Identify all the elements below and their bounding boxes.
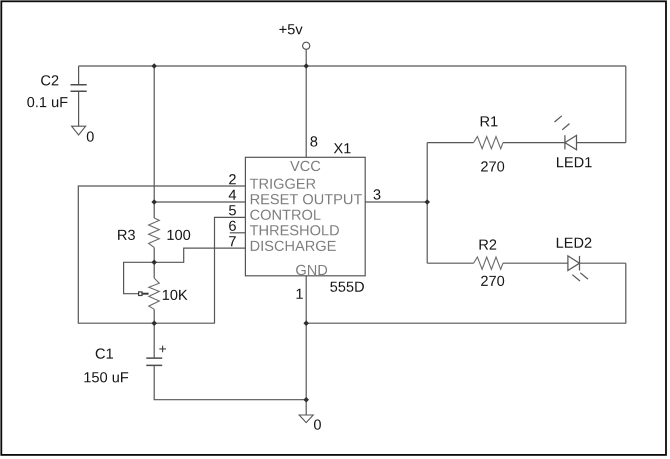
pin name CONTROL bbox=[250, 210, 320, 220]
pin number 5 bbox=[229, 205, 236, 215]
pin name GND bbox=[296, 265, 327, 275]
label 270 of R2 bbox=[481, 276, 504, 286]
label 0 at C2 ground bbox=[87, 131, 94, 141]
pin number 3 bbox=[374, 189, 381, 199]
label 555D bbox=[330, 282, 364, 292]
pin number 6 bbox=[229, 221, 236, 231]
pin number 1 bbox=[297, 289, 303, 299]
wire pin 6 stub bbox=[230, 232, 246, 234]
wire discharge link to pin 7 bbox=[154, 248, 245, 262]
capacitor C1 bbox=[146, 358, 162, 365]
wire +5v lead bbox=[305, 50, 307, 66]
node R3 / pot junction bbox=[151, 260, 157, 266]
wire control loop pin 5 bbox=[215, 217, 246, 323]
node top rail / x154 bbox=[151, 63, 157, 69]
wire C1 bottom lead to ground bbox=[154, 366, 306, 400]
op-amp style IC box U1/X1 555 bbox=[245, 157, 365, 275]
label +5v bbox=[279, 24, 302, 34]
wire C2 bottom lead bbox=[78, 92, 80, 126]
wire C2 top lead bbox=[78, 66, 80, 84]
label R2 bbox=[480, 239, 497, 249]
wire pot top lead bbox=[153, 262, 155, 278]
potentiometer 10K bbox=[149, 278, 160, 309]
wire top +5v rail bbox=[79, 65, 626, 67]
label R3 bbox=[118, 230, 135, 240]
label C2 bbox=[41, 75, 58, 85]
pin name TRIGGER bbox=[250, 179, 316, 189]
wire pin 8 bbox=[305, 66, 307, 157]
wire pin 1 bbox=[305, 276, 307, 400]
wire wiper loop bbox=[124, 262, 155, 293]
label 270 of R1 bbox=[481, 161, 504, 171]
label 0.1 uF bbox=[27, 97, 67, 107]
ground main bbox=[299, 415, 313, 423]
wire vertical x154 rail to pin4 bbox=[153, 66, 155, 202]
resistor R3 bbox=[149, 218, 160, 248]
pin number 7 bbox=[229, 236, 236, 246]
label 10K bbox=[163, 290, 188, 300]
wire pin 4 RESET bbox=[154, 201, 245, 203]
label R1 bbox=[481, 116, 498, 126]
ground at C2 bbox=[72, 126, 86, 135]
C1 plus sign bbox=[159, 346, 166, 353]
LED1 bbox=[555, 116, 577, 150]
resistor R1 bbox=[474, 137, 503, 149]
wire R2 row bbox=[427, 262, 626, 264]
wire trigger loop pin 2 bbox=[78, 186, 245, 323]
node pot bottom rail bbox=[151, 320, 157, 326]
+5v supply circle bbox=[303, 42, 310, 49]
wire R1 row bbox=[427, 142, 626, 144]
label LED1 bbox=[557, 157, 592, 167]
label C1 bbox=[96, 348, 113, 358]
pin name VCC bbox=[290, 161, 320, 171]
label 0 at main ground bbox=[314, 419, 321, 429]
wire right branch vertical bbox=[426, 143, 428, 264]
wire LED2 return to ground rail bbox=[306, 263, 626, 323]
wire R3 bottom lead bbox=[153, 248, 155, 263]
LED2 bbox=[568, 256, 588, 281]
wire C1 top lead bbox=[153, 323, 155, 357]
wire pin 3 output bbox=[365, 201, 427, 203]
wire pot bottom lead bbox=[153, 309, 155, 323]
pin number 8 bbox=[310, 136, 317, 146]
label LED2 bbox=[557, 238, 592, 248]
capacitor C2 bbox=[71, 85, 87, 92]
potentiometer wiper arrow bbox=[139, 292, 149, 296]
component and net labels (text as paths) bbox=[27, 24, 591, 429]
wire R3 top lead bbox=[153, 202, 155, 218]
node top rail / +5v pin8 bbox=[303, 63, 309, 69]
pin number 2 bbox=[229, 174, 236, 184]
label 100 bbox=[168, 230, 191, 240]
node pin4 / R3 bbox=[151, 199, 157, 205]
pin name DISCHARGE bbox=[251, 241, 336, 251]
node C1 / pin1 ground bbox=[303, 397, 309, 403]
pin names RESET OUTPUT bbox=[251, 194, 362, 204]
node gnd rail / pin1 bbox=[303, 320, 309, 326]
wire LED1 to top rail bbox=[625, 66, 627, 143]
pin name THRESHOLD bbox=[250, 225, 339, 235]
label X1 bbox=[334, 143, 351, 153]
node output pin3 bbox=[424, 199, 430, 205]
pin number 4 bbox=[229, 190, 236, 200]
label 150 uF bbox=[84, 372, 128, 382]
resistor R2 bbox=[474, 257, 503, 269]
wire ground lead bbox=[305, 400, 307, 415]
